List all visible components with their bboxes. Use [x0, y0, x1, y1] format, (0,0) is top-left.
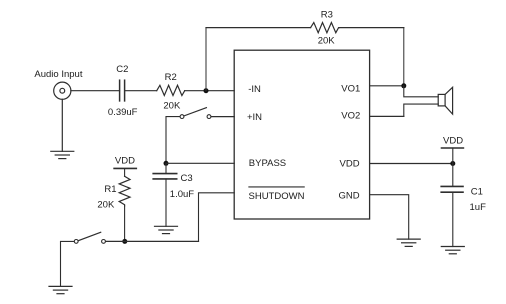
- power VDD: [442, 135, 464, 148]
- wire: [452, 192, 454, 246]
- switch S2: [180, 108, 211, 119]
- wire: [165, 163, 167, 173]
- svg-text:C3: C3: [181, 173, 193, 184]
- wire: [124, 206, 126, 242]
- ground: [49, 286, 72, 293]
- svg-text:1.0uF: 1.0uF: [170, 189, 194, 200]
- svg-text:1uF: 1uF: [470, 202, 487, 213]
- svg-text:BYPASS: BYPASS: [249, 158, 286, 169]
- svg-text:VO1: VO1: [341, 84, 360, 95]
- speaker LS1: [438, 87, 452, 114]
- op-amp U1: [234, 50, 369, 219]
- capacitor C3: [153, 174, 177, 179]
- wire: [206, 27, 311, 29]
- connector J1 Audio Input: [54, 82, 71, 99]
- wire: [205, 28, 207, 91]
- wire: [211, 116, 234, 118]
- svg-text:VDD: VDD: [115, 156, 135, 167]
- svg-text:VDD: VDD: [443, 135, 463, 146]
- svg-text:-IN: -IN: [248, 84, 261, 95]
- wire: [370, 163, 453, 165]
- wire: [370, 195, 409, 239]
- ground: [441, 247, 464, 254]
- junction: [204, 88, 209, 93]
- junction: [450, 161, 455, 166]
- svg-text:R1: R1: [104, 184, 116, 195]
- svg-text:R2: R2: [165, 72, 177, 83]
- wire: [106, 240, 199, 242]
- svg-text:VO2: VO2: [341, 111, 360, 122]
- resistor R2: [157, 85, 185, 95]
- wire: [125, 90, 157, 92]
- svg-text:20K: 20K: [318, 36, 336, 47]
- wire: [61, 99, 63, 151]
- wire: [370, 85, 404, 87]
- svg-text:R3: R3: [321, 10, 333, 21]
- svg-text:C2: C2: [116, 64, 128, 75]
- wire: [166, 117, 180, 164]
- svg-text:20K: 20K: [163, 101, 181, 112]
- junction: [401, 83, 406, 88]
- wire: [404, 104, 438, 116]
- svg-text:+IN: +IN: [247, 112, 262, 123]
- wire: [452, 148, 454, 164]
- junction: [122, 239, 127, 244]
- wire: [452, 164, 454, 187]
- switch S1: [74, 232, 105, 243]
- wire: [199, 193, 235, 242]
- ground: [155, 226, 178, 233]
- ground: [51, 151, 74, 158]
- svg-text:20K: 20K: [97, 200, 115, 211]
- wire: [124, 169, 126, 177]
- resistor R1: [119, 176, 130, 206]
- capacitor C2: [120, 80, 125, 101]
- capacitor C1: [441, 186, 463, 192]
- wire: [165, 179, 167, 226]
- wire: [404, 86, 438, 97]
- wire: [403, 28, 405, 86]
- wire: [370, 115, 404, 117]
- SHUTDOWN overline: [249, 186, 304, 188]
- wire: [339, 27, 404, 29]
- svg-text:0.39uF: 0.39uF: [108, 107, 138, 118]
- power VDD: [114, 156, 136, 169]
- resistor R3: [311, 23, 340, 33]
- wire: [71, 90, 120, 92]
- junction: [164, 161, 169, 166]
- ground: [397, 239, 420, 246]
- wire: [166, 162, 234, 164]
- wire: [185, 90, 235, 92]
- svg-text:SHUTDOWN: SHUTDOWN: [249, 191, 305, 202]
- svg-text:Audio Input: Audio Input: [34, 69, 82, 80]
- wire: [61, 241, 75, 286]
- svg-text:VDD: VDD: [340, 159, 360, 170]
- svg-text:GND: GND: [339, 191, 360, 202]
- svg-text:C1: C1: [471, 186, 483, 197]
